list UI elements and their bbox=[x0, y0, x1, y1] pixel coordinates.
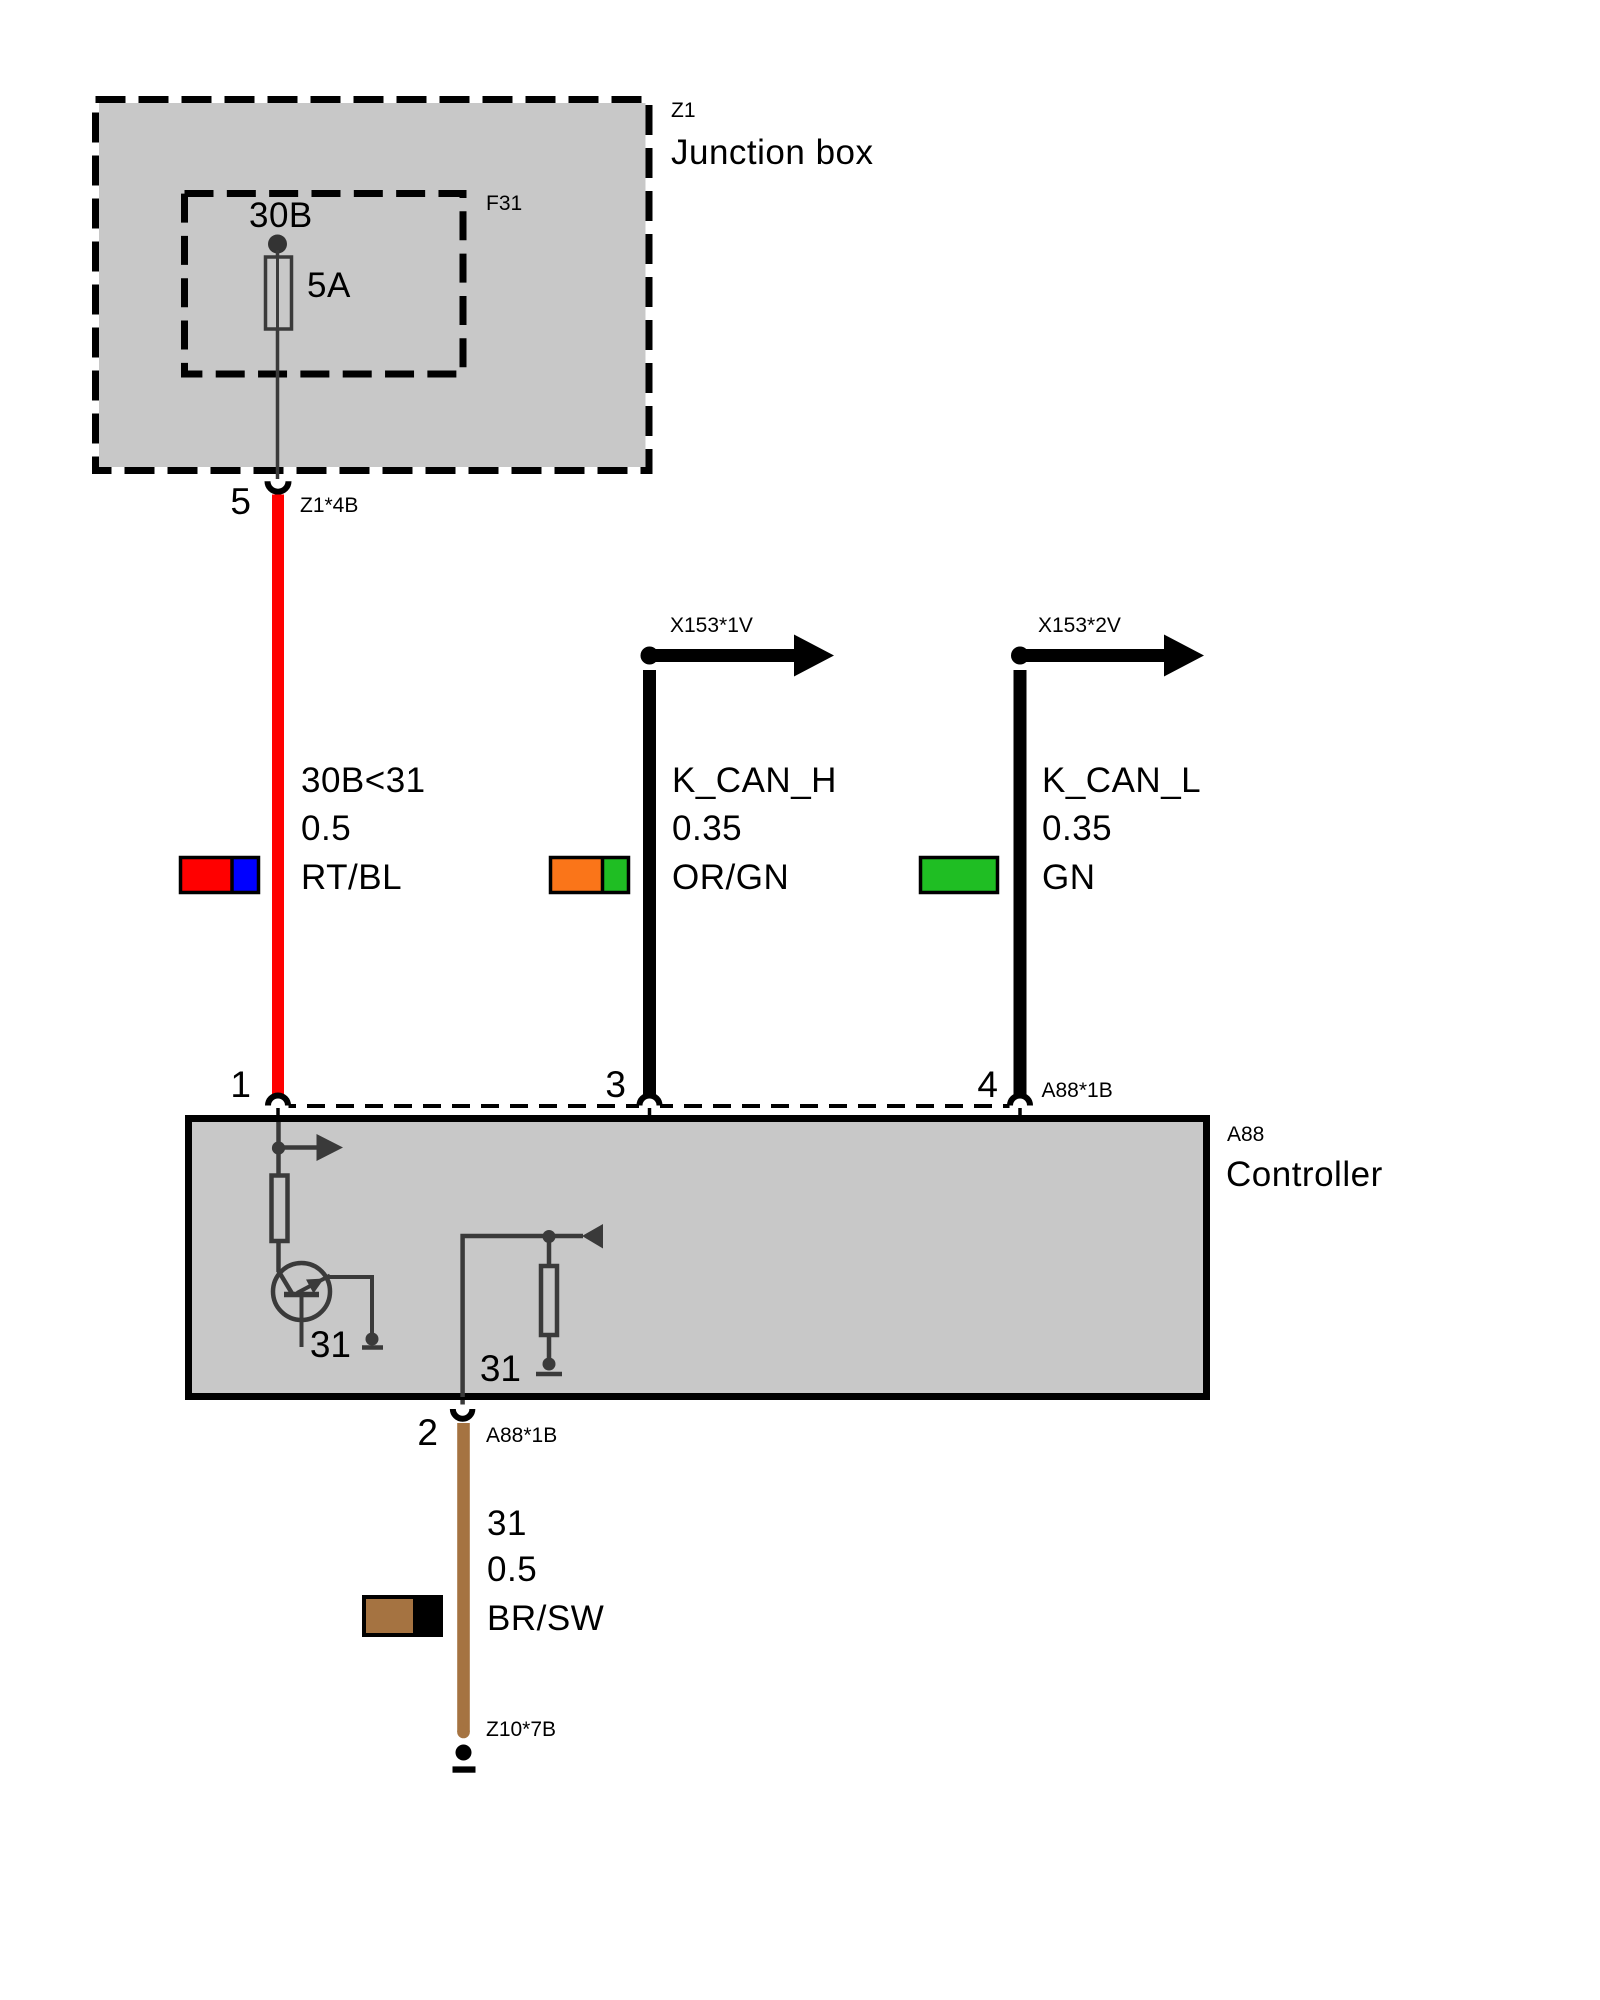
pin 5 connector Z1*4B bbox=[268, 481, 289, 492]
emitter arrowhead bbox=[306, 1279, 324, 1294]
resistor R2 bbox=[541, 1266, 557, 1335]
svg-text:X153*1V: X153*1V bbox=[670, 614, 753, 637]
svg-text:X153*2V: X153*2V bbox=[1038, 614, 1121, 637]
svg-text:0.5: 0.5 bbox=[301, 809, 351, 848]
transistor Q1 bbox=[273, 1263, 372, 1347]
svg-text:F31: F31 bbox=[486, 192, 522, 215]
wire 31 brown bbox=[457, 1423, 470, 1732]
svg-text:K_CAN_L: K_CAN_L bbox=[1042, 761, 1201, 800]
node internal 2 bbox=[543, 1230, 556, 1243]
pin 4 bbox=[1010, 1102, 1031, 1109]
svg-text:0.5: 0.5 bbox=[487, 1550, 537, 1589]
controller box A88 bbox=[189, 1119, 1207, 1397]
svg-text:A88*1B: A88*1B bbox=[486, 1424, 557, 1447]
pin 3 bbox=[639, 1102, 660, 1109]
node pin1 bbox=[272, 1141, 285, 1154]
svg-text:BR/SW: BR/SW bbox=[487, 1599, 604, 1638]
arrow X153*2V bbox=[1022, 635, 1204, 677]
wire node to arrow bbox=[549, 1234, 583, 1239]
swatch OR/GN bbox=[549, 856, 630, 894]
wire node to arrow bbox=[279, 1145, 319, 1150]
node X153*1V bbox=[641, 647, 659, 665]
svg-text:Z1: Z1 bbox=[671, 99, 696, 122]
junction box Z1 bbox=[96, 100, 650, 471]
arrow X153*1V bbox=[652, 635, 834, 677]
node 30B bbox=[268, 235, 287, 254]
fuse F31 5A bbox=[266, 257, 292, 329]
wire pin1 to node bbox=[276, 1122, 281, 1148]
wire K_CAN_L black bbox=[1014, 670, 1027, 1096]
svg-text:Controller: Controller bbox=[1226, 1155, 1383, 1194]
svg-text:5: 5 bbox=[230, 481, 251, 522]
svg-text:RT/BL: RT/BL bbox=[301, 858, 402, 897]
svg-text:0.35: 0.35 bbox=[1042, 809, 1112, 848]
wire resistor to ground bbox=[547, 1335, 552, 1358]
wire node to resistor bbox=[547, 1236, 552, 1266]
svg-text:30B<31: 30B<31 bbox=[301, 761, 426, 800]
fuse box F31 bbox=[185, 194, 464, 375]
pin 1 bbox=[268, 1102, 289, 1109]
svg-text:Junction box: Junction box bbox=[671, 133, 874, 172]
svg-text:1: 1 bbox=[230, 1064, 251, 1105]
ground 31 (resistor) bbox=[543, 1358, 556, 1371]
swatch GN bbox=[919, 856, 999, 894]
swatch RT/BL bbox=[179, 856, 260, 894]
node X153*2V bbox=[1011, 647, 1029, 665]
arrowhead signal out bbox=[317, 1134, 344, 1161]
svg-text:5A: 5A bbox=[307, 266, 351, 305]
swatch BR/SW bbox=[362, 1595, 443, 1637]
svg-text:30B: 30B bbox=[249, 196, 313, 235]
wire K_CAN_H black bbox=[643, 670, 656, 1096]
svg-text:A88*1B: A88*1B bbox=[1042, 1079, 1113, 1102]
pin 2 connector A88*1B bbox=[453, 1409, 473, 1419]
wire 30B<31 red bbox=[272, 495, 284, 1097]
wire 31 rounded end bbox=[457, 1726, 470, 1739]
wire fuse vertical bbox=[276, 250, 280, 479]
collector diagonal bbox=[279, 1271, 294, 1295]
internal circuit 2 : pull-down resistor bbox=[463, 1236, 583, 1397]
arrowhead signal in bbox=[582, 1224, 603, 1249]
wire pin 2 stub bbox=[460, 1400, 465, 1405]
ground Z10*7B bbox=[456, 1745, 472, 1761]
svg-text:OR/GN: OR/GN bbox=[672, 858, 789, 897]
resistor R1 bbox=[272, 1176, 288, 1242]
svg-text:0.35: 0.35 bbox=[672, 809, 742, 848]
wire node to resistor bbox=[276, 1148, 281, 1175]
svg-text:31: 31 bbox=[310, 1324, 351, 1365]
wire pin2 vertical + horizontal to node bbox=[463, 1236, 549, 1397]
svg-text:31: 31 bbox=[487, 1504, 527, 1543]
wire resistor to transistor bbox=[276, 1242, 281, 1272]
svg-text:4: 4 bbox=[977, 1064, 998, 1105]
svg-text:Z1*4B: Z1*4B bbox=[300, 494, 358, 517]
svg-text:A88: A88 bbox=[1227, 1123, 1264, 1146]
connector line A88*1B dashed bbox=[278, 1104, 1020, 1108]
svg-text:Z10*7B: Z10*7B bbox=[486, 1718, 556, 1741]
svg-text:K_CAN_H: K_CAN_H bbox=[672, 761, 837, 800]
ground 31 (transistor) bbox=[366, 1333, 379, 1346]
svg-text:31: 31 bbox=[480, 1348, 521, 1389]
internal circuit 1 : pull-up + transistor bbox=[279, 1122, 319, 1295]
svg-text:3: 3 bbox=[605, 1064, 626, 1105]
svg-text:GN: GN bbox=[1042, 858, 1096, 897]
svg-text:2: 2 bbox=[417, 1412, 438, 1453]
